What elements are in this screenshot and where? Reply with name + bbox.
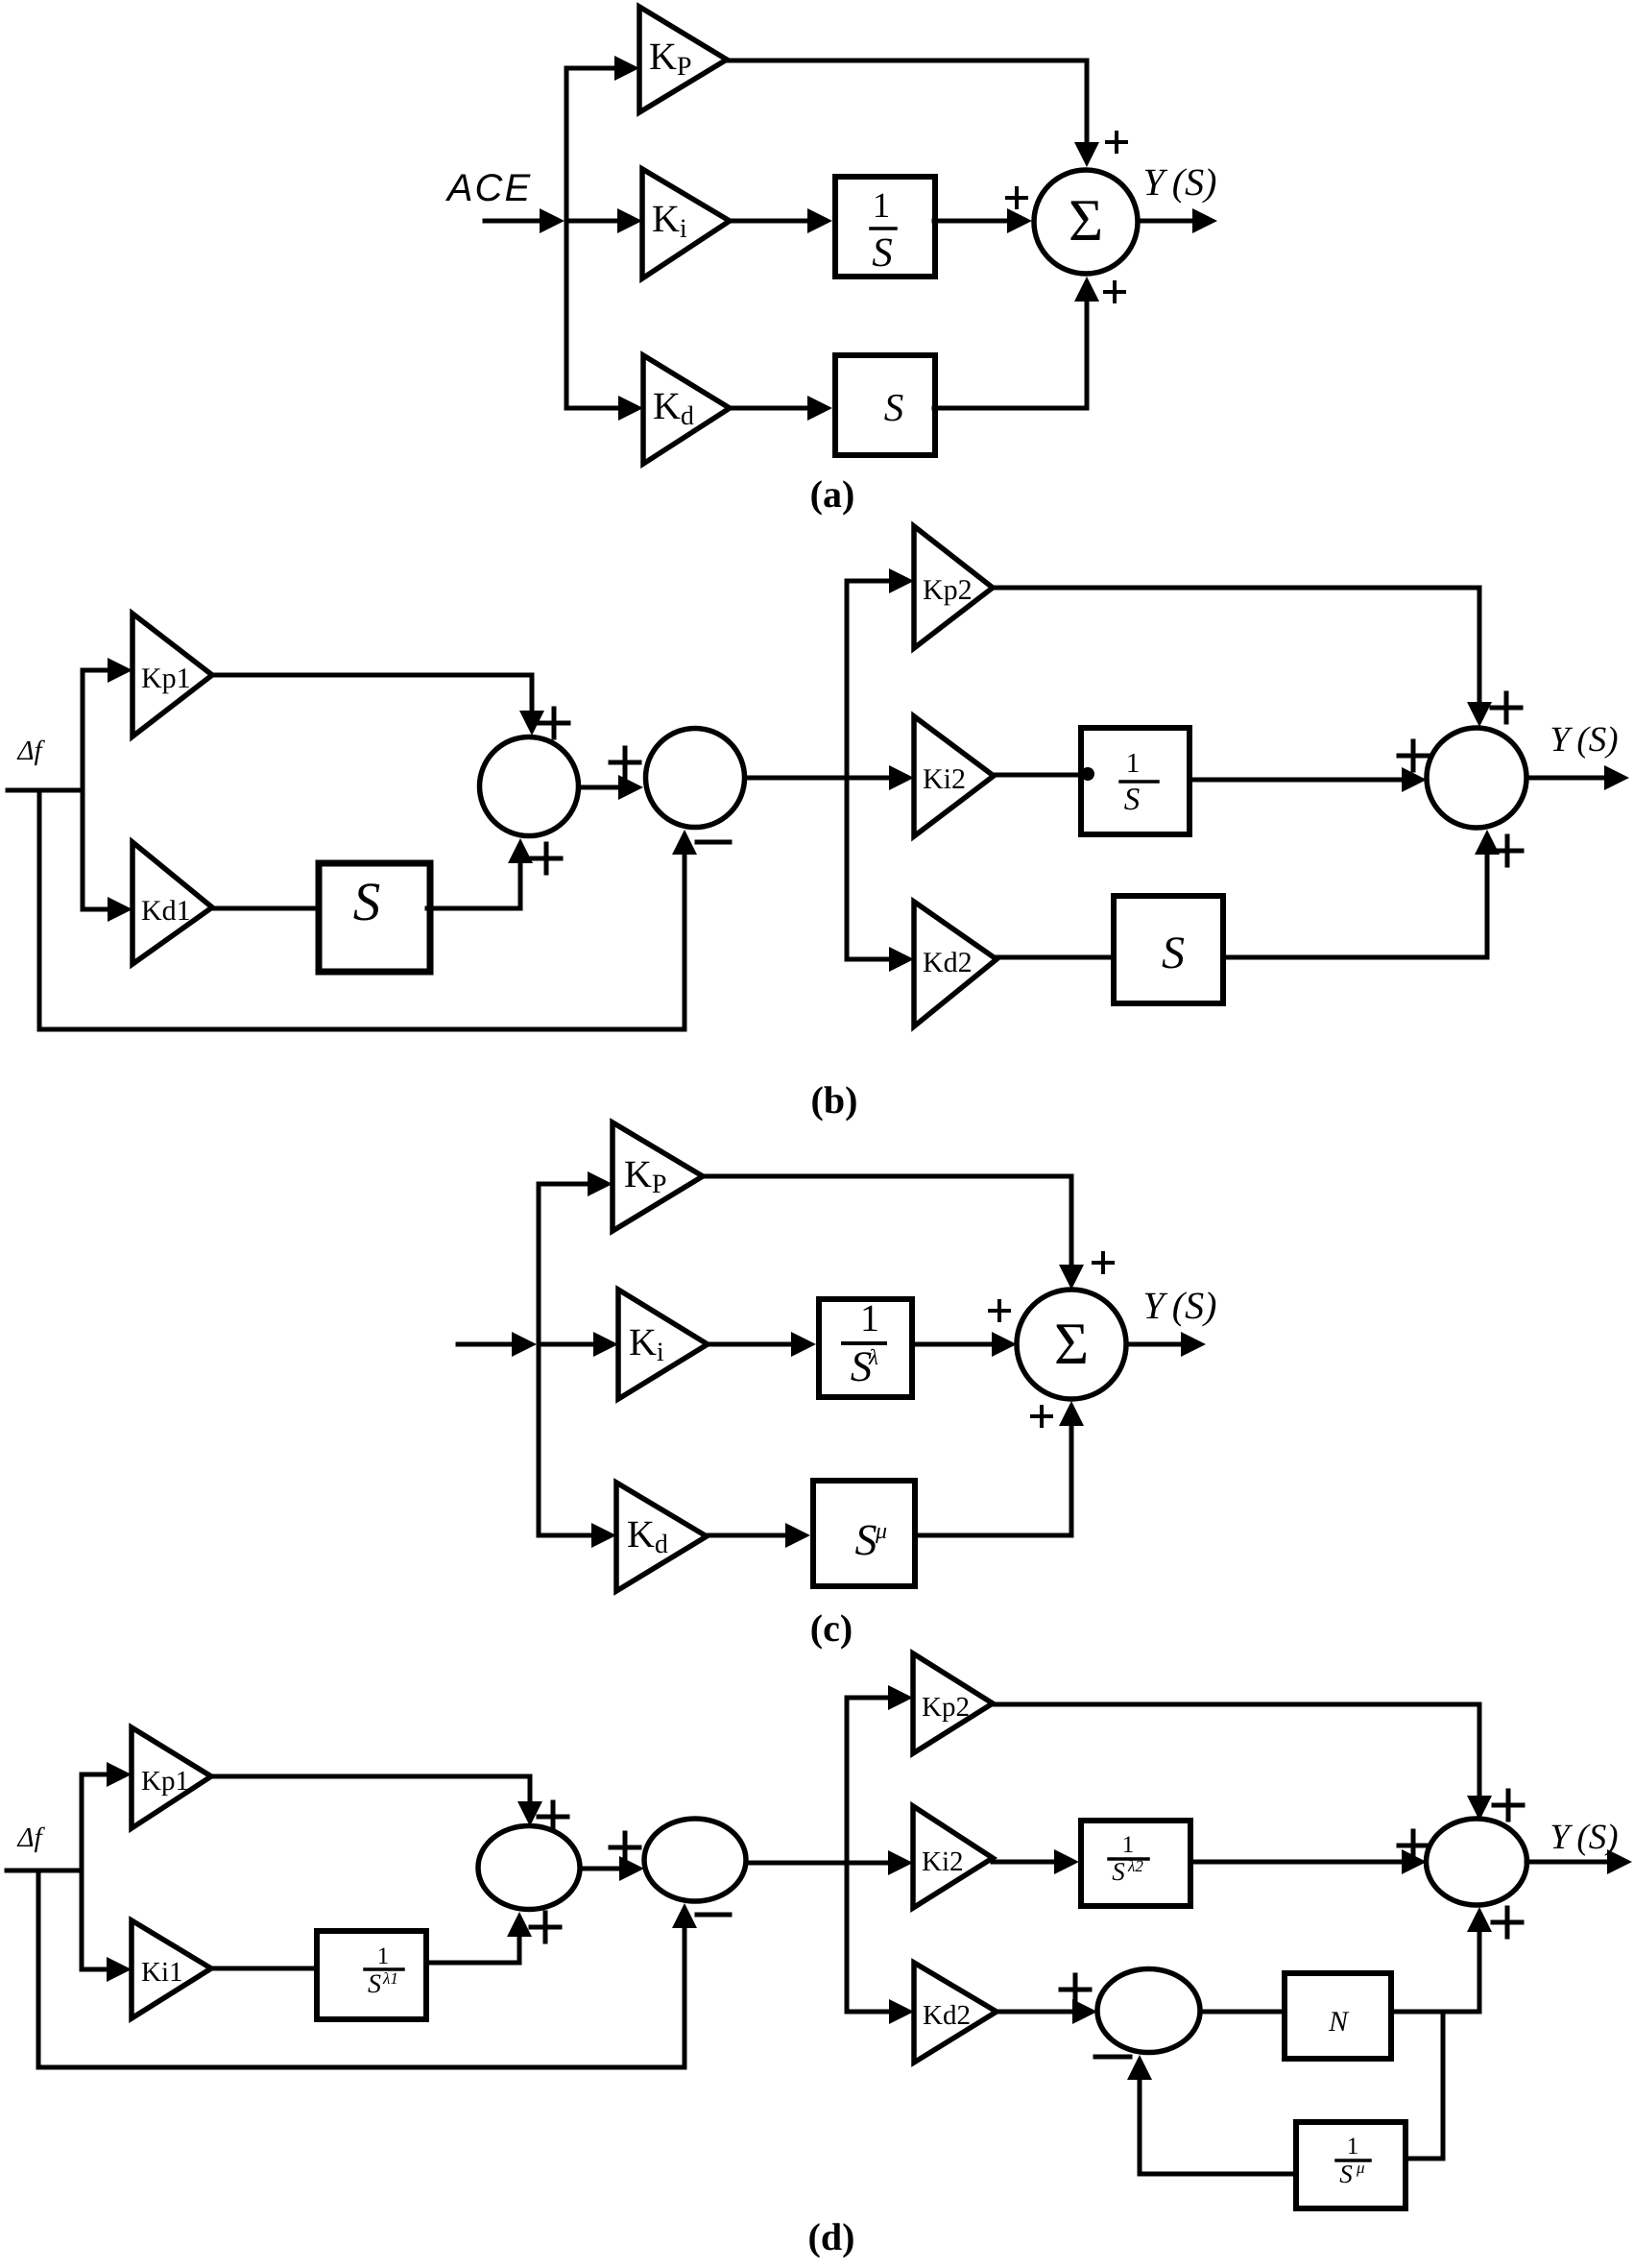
svg-text:λ2: λ2 xyxy=(1127,1857,1143,1875)
wire integrator to summer a xyxy=(934,208,1032,233)
block 1/S^lambda (c) xyxy=(819,1296,912,1397)
svg-text:1: 1 xyxy=(873,186,891,226)
wire Kd2 to summer4 d xyxy=(997,1999,1097,2024)
svg-text:Σ: Σ xyxy=(1069,188,1103,253)
gain block Ki (a) xyxy=(642,169,730,278)
wire S block to summer1 b xyxy=(427,838,533,908)
summer4 ellipse d xyxy=(1097,1969,1200,2053)
summer circle a xyxy=(1034,170,1138,274)
wire branch vertical d-right xyxy=(845,1698,850,2012)
wire branch vertical b-left xyxy=(81,670,85,909)
block 1/S^lambda1 (d) xyxy=(317,1931,426,2019)
block S^mu (c) xyxy=(813,1481,915,1586)
wire branch vertical b-right xyxy=(845,581,850,959)
plus sign top c xyxy=(1093,1253,1113,1272)
svg-text:Ki2: Ki2 xyxy=(923,763,966,795)
wire to Kp1 b xyxy=(83,658,132,683)
svg-text:λ1: λ1 xyxy=(382,1969,398,1988)
svg-text:S: S xyxy=(1339,2159,1353,2188)
wire Ki to integrator c xyxy=(708,1332,816,1357)
svg-text:(c): (c) xyxy=(810,1606,853,1650)
wire to Kp2 d xyxy=(847,1685,913,1710)
summer circle c xyxy=(1017,1290,1126,1399)
svg-text:Y (S): Y (S) xyxy=(1550,720,1618,760)
wire integrator to summer3 b xyxy=(1191,767,1427,792)
summer1 circle b xyxy=(480,737,579,836)
svg-text:Kp2: Kp2 xyxy=(923,574,973,606)
plus sign between summers b xyxy=(611,748,639,777)
block S (b left) xyxy=(319,863,430,972)
wire Ki2 to integrator d xyxy=(993,1849,1079,1874)
svg-text:S: S xyxy=(1124,783,1141,817)
svg-text:Y (S): Y (S) xyxy=(1143,1284,1217,1327)
svg-text:S: S xyxy=(1162,928,1185,978)
gain block Kp2 (b) xyxy=(914,526,993,648)
gain block Kp (a) xyxy=(639,7,727,112)
svg-text:1: 1 xyxy=(1126,748,1141,779)
wire S block to summer a xyxy=(934,277,1099,408)
svg-text:ACE: ACE xyxy=(445,167,532,209)
wire integrator to summer c xyxy=(915,1332,1017,1357)
svg-text:μ: μ xyxy=(1356,2159,1365,2177)
wire output arrow d xyxy=(1526,1849,1632,1874)
wire to Kd2 d xyxy=(847,1999,914,2024)
svg-text:Ki1: Ki1 xyxy=(141,1957,183,1988)
wire Kp1 to summer1 b xyxy=(212,675,544,736)
wire feedback down b xyxy=(39,790,685,1029)
wire Ki2 to integrator b xyxy=(994,773,1078,778)
wire summer2 to Ki2 d xyxy=(746,1850,913,1875)
svg-text:1: 1 xyxy=(1347,2134,1359,2159)
plus sign left summer3 d xyxy=(1399,1831,1428,1860)
wire Kd1 to S block b xyxy=(212,906,316,911)
gain block Ki2 (b) xyxy=(914,716,994,836)
wire summer1 to summer2 d xyxy=(580,1856,644,1881)
wire to Kd c xyxy=(539,1523,616,1548)
wire Kd to S^mu block c xyxy=(707,1523,810,1548)
wire Kp to summer c xyxy=(703,1176,1084,1290)
gain block Kp2 (d) xyxy=(913,1653,993,1753)
wire Kd2 to S block b xyxy=(997,955,1112,960)
plus sign bottom summer3 d xyxy=(1493,1908,1522,1937)
svg-text:Kd2: Kd2 xyxy=(923,947,973,978)
block N (d) xyxy=(1285,1973,1391,2059)
wire output arrow c xyxy=(1126,1332,1206,1357)
wire input arrow c xyxy=(458,1332,537,1357)
gain block Kp1 (b) xyxy=(132,614,212,736)
wire Kd to S block a xyxy=(730,396,832,421)
wire S block to summer3 b xyxy=(1224,830,1500,957)
wire to Kp c xyxy=(539,1171,613,1196)
svg-text:1: 1 xyxy=(1122,1832,1135,1858)
wire Kp to summer a xyxy=(727,60,1099,167)
wire summer4 to N block d xyxy=(1200,2010,1282,2015)
block 1/S^lambda2 (d) xyxy=(1081,1821,1190,1906)
gain block Kd1 (b) xyxy=(132,842,212,964)
plus sign bottom summer3 b xyxy=(1493,836,1522,865)
svg-text:(a): (a) xyxy=(810,472,855,516)
svg-text:Δf: Δf xyxy=(16,1822,45,1853)
wire to Ki a xyxy=(566,208,642,233)
plus sign top summer1 b xyxy=(540,709,568,737)
svg-text:μ: μ xyxy=(875,1519,887,1544)
block 1/S (b right) xyxy=(1081,728,1189,834)
wire Kp2 to summer3 b xyxy=(993,588,1492,727)
svg-text:1: 1 xyxy=(377,1943,390,1969)
wire N to summer3 d xyxy=(1394,1907,1492,2012)
gain block Ki2 (d) xyxy=(913,1806,993,1908)
svg-text:Kp1: Kp1 xyxy=(141,663,191,694)
wire input d xyxy=(7,1869,82,1873)
wire feedback up into summer2 b xyxy=(672,830,697,1029)
wire to Kp1 d xyxy=(82,1762,132,1787)
plus sign left c xyxy=(990,1301,1009,1320)
svg-text:(d): (d) xyxy=(808,2215,855,2258)
plus sign left summer3 b xyxy=(1399,741,1428,770)
svg-text:S: S xyxy=(872,230,893,276)
wire to Ki c xyxy=(539,1332,618,1357)
svg-text:Σ: Σ xyxy=(1054,1312,1089,1377)
svg-text:Kp2: Kp2 xyxy=(922,1692,970,1723)
gain block Ki (c) xyxy=(618,1290,708,1399)
wire branch vertical d-left xyxy=(80,1774,84,1969)
wire to Kd a xyxy=(566,396,643,421)
wire S^mu to summer c xyxy=(915,1401,1084,1535)
wire junction down to 1/S^mu d xyxy=(1408,2012,1443,2159)
svg-text:Kd2: Kd2 xyxy=(923,2000,971,2031)
gain block Kp (c) xyxy=(613,1122,703,1231)
block 1/S^mu (d) xyxy=(1296,2122,1406,2208)
wire branch vertical c xyxy=(537,1184,541,1535)
wire summer2 to Ki2 b xyxy=(745,765,914,790)
svg-text:S: S xyxy=(1112,1857,1125,1886)
wire input b xyxy=(8,788,83,793)
wire feedback down d xyxy=(38,1870,685,2067)
wire integrator to summer3 d xyxy=(1191,1849,1427,1874)
plus sign top summer1 d xyxy=(539,1802,567,1831)
wire Ki to integrator a xyxy=(730,208,832,233)
wire ACE input arrow xyxy=(485,208,565,233)
block S (b right) xyxy=(1114,896,1223,1003)
svg-text:N: N xyxy=(1328,2006,1350,2038)
svg-text:Kd1: Kd1 xyxy=(141,895,191,927)
wire Kp1 to summer1 d xyxy=(211,1776,542,1826)
plus sign bottom summer1 d xyxy=(531,1913,560,1942)
summer2 ellipse d xyxy=(644,1819,746,1901)
svg-text:Y (S): Y (S) xyxy=(1143,160,1217,204)
summer3 circle b xyxy=(1427,728,1526,828)
svg-text:(b): (b) xyxy=(811,1078,858,1122)
plus sign bottom summer1 b xyxy=(532,844,561,873)
svg-text:Δf: Δf xyxy=(16,736,45,766)
plus sign left summer4 d xyxy=(1061,1975,1090,2004)
plus sign left a xyxy=(1007,188,1026,207)
wire to Ki1 d xyxy=(82,1957,132,1982)
wire feedback up into summer2 d xyxy=(672,1903,697,2067)
svg-text:S: S xyxy=(855,1515,877,1564)
svg-text:Kp1: Kp1 xyxy=(141,1766,189,1797)
plus sign top summer3 b xyxy=(1492,693,1521,722)
gain block Kd2 (d) xyxy=(914,1963,997,2063)
wire to Kp a xyxy=(566,56,639,81)
svg-text:S: S xyxy=(353,872,381,932)
junction dot b xyxy=(1081,767,1094,781)
svg-text:S: S xyxy=(368,1969,381,1999)
wire output arrow b xyxy=(1526,765,1629,790)
wire to Kp2 b xyxy=(847,568,914,593)
gain block Kd (a) xyxy=(643,355,730,464)
plus sign top a xyxy=(1107,133,1126,152)
summer2 circle b xyxy=(646,729,745,828)
gain block Kp1 (d) xyxy=(132,1727,211,1828)
gain block Ki1 (d) xyxy=(132,1920,211,2018)
wire output arrow a xyxy=(1138,208,1217,233)
summer3 ellipse d xyxy=(1427,1819,1527,1905)
svg-text:1: 1 xyxy=(860,1296,879,1339)
summer1 ellipse d xyxy=(478,1826,580,1910)
minus sign summer2 d xyxy=(697,1913,730,1918)
block 1/S (a) xyxy=(835,177,935,277)
wire to Kd2 b xyxy=(847,947,914,972)
wire to Kd1 b xyxy=(83,897,132,922)
wire Kp2 to summer3 d xyxy=(993,1704,1492,1821)
wire summer1 to summer2 b xyxy=(579,775,643,800)
plus sign between summers d xyxy=(611,1833,639,1862)
minus sign summer4 d xyxy=(1095,2055,1130,2060)
gain block Kd2 (b) xyxy=(914,902,997,1026)
wire integrator to summer1 d xyxy=(428,1912,532,1963)
plus sign bottom a xyxy=(1105,282,1124,302)
plus sign bottom c xyxy=(1032,1407,1051,1426)
gain block Kd (c) xyxy=(616,1483,707,1591)
wire branch vertical a xyxy=(565,68,569,408)
minus sign summer2 b xyxy=(697,840,730,845)
block S (a) xyxy=(835,355,935,455)
wire 1/S^mu feedback to summer4 d xyxy=(1127,2055,1294,2174)
svg-text:λ: λ xyxy=(868,1345,878,1369)
svg-text:Ki2: Ki2 xyxy=(922,1846,964,1877)
plus sign top summer3 d xyxy=(1494,1791,1523,1820)
svg-text:S: S xyxy=(884,385,904,429)
wire Ki1 to integrator d xyxy=(211,1966,315,1971)
